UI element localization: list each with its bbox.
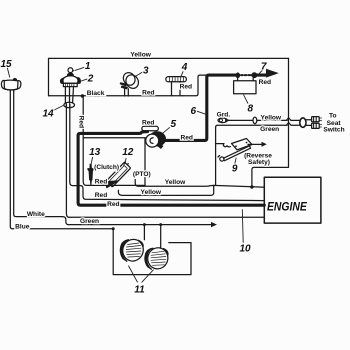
wire switch wire left to white brace (66, 104, 68, 217)
wire inner box right edge (144, 138, 146, 186)
wire lamp B drop (160, 225, 162, 248)
arrow green end (211, 222, 217, 227)
connector bead on yellow (253, 117, 257, 124)
leader 8 (244, 95, 249, 104)
svg-text:Red: Red (95, 192, 107, 199)
component 15 connector (1, 78, 20, 90)
svg-text:3: 3 (143, 65, 149, 76)
svg-text:8: 8 (248, 103, 254, 114)
svg-text:Red: Red (259, 79, 271, 86)
wire lamp A drop (143, 225, 145, 240)
leader 5 (163, 127, 170, 133)
svg-text:Yellow: Yellow (165, 179, 186, 186)
component 5 switch (142, 126, 166, 149)
wire riser and inner box left edge (83, 96, 145, 186)
seat switch plug (312, 117, 322, 129)
svg-text:To: To (329, 113, 337, 120)
svg-text:Yellow: Yellow (130, 51, 151, 58)
key 1 (68, 68, 73, 73)
svg-text:ENGINE: ENGINE (267, 201, 307, 214)
lamp B (145, 245, 171, 271)
wire inner box top edge (83, 137, 145, 139)
leader 3 (135, 72, 143, 77)
svg-text:1: 1 (85, 61, 91, 72)
connector oval bead (300, 118, 306, 127)
leader 9 (235, 158, 236, 164)
component 8 box (234, 81, 256, 94)
svg-text:Red: Red (142, 119, 154, 126)
leader 7 (259, 70, 262, 73)
wire yellow1 to engine (135, 180, 264, 188)
leader lines for numbers (7, 67, 263, 283)
svg-text:4: 4 (181, 62, 188, 73)
wire hop marks at loop crossing (286, 118, 291, 126)
component number labels (0, 59, 266, 295)
leader 13 (91, 157, 93, 165)
svg-text:Grd.: Grd. (217, 111, 231, 118)
svg-text:11: 11 (134, 284, 145, 295)
connector 14 oval (64, 102, 75, 108)
svg-text:Blue: Blue (15, 224, 30, 231)
svg-text:Red: Red (142, 89, 154, 96)
wire pair below 14 (66, 104, 69, 108)
leader 12 (124, 158, 127, 166)
svg-text:15: 15 (0, 59, 12, 70)
wire blue line and lamp loop (10, 91, 191, 275)
svg-text:Switch: Switch (323, 126, 344, 133)
wire right loop down to engine (252, 58, 289, 187)
leader 10 (241, 209, 244, 243)
wire fuse jog to thick corner (183, 75, 207, 96)
svg-text:Green: Green (260, 126, 279, 133)
reverse safety switch 9 (218, 139, 267, 162)
fusible link dashes (237, 74, 252, 76)
wire plug leads (306, 120, 312, 126)
svg-text:14: 14 (42, 108, 54, 119)
svg-text:Red: Red (107, 201, 119, 208)
leader 14 (53, 105, 63, 110)
node dot on yellow1 (250, 185, 253, 188)
svg-text:Red: Red (78, 116, 85, 128)
node junction dot riser (81, 94, 84, 97)
svg-text:Yellow: Yellow (261, 114, 282, 121)
svg-text:12: 12 (122, 147, 134, 158)
PTO switch 12 (106, 161, 131, 188)
svg-text:Red: Red (95, 178, 107, 185)
leader 6 (197, 111, 207, 115)
component 3 cylinder (120, 70, 141, 96)
wire post 1 of fuse 7 (237, 73, 239, 81)
svg-text:Black: Black (87, 90, 105, 97)
svg-text:Red: Red (180, 134, 192, 141)
ground connector grd (218, 118, 228, 123)
svg-text:7: 7 (261, 62, 267, 73)
component 4 fuse holder (166, 77, 187, 96)
svg-text:10: 10 (239, 243, 251, 254)
svg-text:5: 5 (171, 119, 177, 130)
wire green corner vertical down (215, 127, 217, 185)
leader 11 (128, 266, 153, 283)
wire switch stubs (65, 87, 73, 103)
svg-text:(Clutch): (Clutch) (94, 164, 119, 171)
wire seat green (216, 125, 288, 127)
lamp A (120, 237, 146, 264)
ignition switch 2 (61, 68, 81, 87)
svg-text:Safety): Safety) (248, 159, 270, 166)
clutch component 13 (87, 164, 93, 185)
wire post 2 of fuse 7 (252, 73, 254, 81)
engine box (264, 177, 321, 223)
svg-text:13: 13 (89, 147, 101, 158)
svg-text:(PTO): (PTO) (133, 171, 151, 178)
leader 2 (80, 79, 88, 82)
leader 4 (181, 71, 183, 76)
wire base line black/red (49, 95, 184, 97)
svg-text:6: 6 (191, 106, 197, 117)
wire seat yellow (228, 119, 287, 121)
svg-text:Red: Red (180, 84, 192, 91)
wire branch to reverse switch (216, 143, 224, 145)
arrow red thick end (266, 69, 279, 78)
wire white-green brace split (63, 217, 69, 225)
svg-text:2: 2 (87, 73, 94, 84)
svg-text:Yellow: Yellow (141, 189, 162, 196)
svg-text:White: White (27, 211, 45, 218)
wire line to engine y217 (69, 216, 265, 218)
leader 1 (75, 67, 85, 70)
wire white line (14, 91, 63, 217)
wire leads to bead (291, 120, 300, 125)
svg-text:9: 9 (232, 164, 238, 175)
wire thick box (78, 132, 264, 206)
leader 15 (7, 67, 10, 78)
wire battery leads (10, 90, 13, 92)
wire switch wire right to clutch loop (70, 104, 264, 201)
wire green line with arrow (69, 224, 212, 226)
wire top yellow line (49, 58, 289, 95)
wire thick red cable (78, 75, 266, 205)
node blue corner dot (112, 227, 115, 230)
text labels wires (15, 51, 344, 230)
wire yellow2 (118, 185, 213, 195)
svg-text:Green: Green (80, 218, 99, 225)
